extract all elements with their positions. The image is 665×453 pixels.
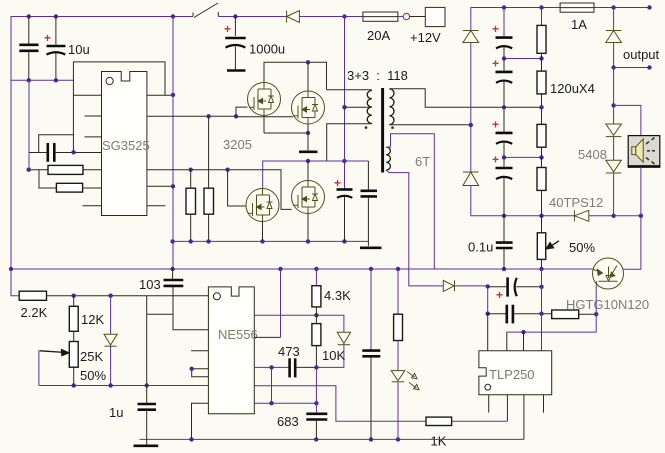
diode 40TPS12 points left	[574, 210, 588, 221]
resistor R-gB vertical	[204, 188, 214, 214]
capacitor 1000u electrolytic	[224, 17, 246, 70]
IC TLP250 body	[479, 351, 552, 395]
resistor 2.2K	[19, 291, 46, 300]
wire long vertical from switch node	[172, 17, 174, 269]
svg-text:10u: 10u	[68, 42, 90, 57]
ground mid	[299, 151, 318, 154]
node pin mid vertical	[171, 184, 175, 188]
node TLP pin6 top	[521, 330, 525, 334]
capacitor 120u #3 electrolytic	[492, 117, 513, 143]
node main rail x=398	[396, 267, 400, 271]
svg-text:1K: 1K	[431, 434, 447, 449]
svg-text:1A: 1A	[571, 17, 587, 32]
wire 40TPS12 to columns	[589, 215, 641, 217]
diode D-in (points left)	[287, 11, 300, 23]
capacitor 1u	[138, 404, 157, 445]
wire 1K right to TLP	[452, 420, 508, 422]
wire cap12 junction to resistors	[504, 58, 542, 60]
node top-left cap2 junction	[54, 14, 58, 18]
speaker sound icon	[628, 136, 660, 168]
node NE556 tied pins	[190, 367, 194, 371]
node resistor R-gA top	[206, 114, 210, 118]
wire SG3525 pin right top to vertical	[147, 94, 173, 96]
node bottom rail x=316.2	[314, 437, 318, 441]
wire link 314	[147, 313, 173, 315]
wire vcc branch down	[146, 296, 148, 404]
node wiper 1u	[145, 383, 149, 387]
wire speaker branch	[614, 105, 641, 135]
svg-text:3205: 3205	[223, 137, 252, 152]
wire +12V center feed vertical	[344, 17, 346, 190]
node mid rail x=308	[306, 239, 310, 243]
wire cap1-cap2 link	[503, 46, 505, 71]
wire SG3525 bottom-left stub	[82, 205, 101, 207]
ground below 1u	[134, 444, 159, 447]
svg-text:1000u: 1000u	[249, 42, 285, 57]
node cap1 bottom	[27, 78, 31, 82]
node cap2 bottom	[54, 78, 58, 82]
wire cap column top	[503, 8, 505, 37]
wire secondary top lead	[389, 89, 541, 108]
ground below mid rail	[360, 247, 382, 250]
svg-text:+: +	[492, 22, 499, 36]
wire gate drive A	[147, 115, 236, 117]
svg-text:+: +	[496, 288, 503, 302]
svg-text:0.1u: 0.1u	[468, 240, 493, 255]
wire fuse to terminal	[398, 16, 403, 18]
transistor Q4 (IRF3205 MOSFET)	[292, 181, 325, 214]
svg-text:6T: 6T	[415, 154, 430, 169]
node 473 left	[269, 365, 273, 369]
node M2 drain top	[306, 60, 310, 64]
node zener top	[108, 294, 112, 298]
wire M1-M2 source bottom loop	[263, 116, 265, 134]
node timing cap junction	[71, 150, 75, 154]
node pin-vcc vertical	[171, 93, 175, 97]
wire SG3525 top wrapper	[73, 62, 165, 152]
node bottom rail x=191.5	[189, 437, 193, 441]
transistor Q1 (IRF3205 MOSFET)	[248, 83, 281, 116]
svg-text:683: 683	[277, 414, 299, 429]
LED indicator down	[391, 371, 405, 382]
svg-text:5408: 5408	[578, 147, 607, 162]
LED arrows	[407, 372, 419, 390]
capacitor 683	[306, 414, 327, 440]
capacitor C-drv1 electrolytic series	[488, 277, 542, 302]
capacitor 0.1u	[496, 243, 513, 248]
wire main rail to IGBT	[11, 268, 593, 270]
capacitor 473	[290, 358, 317, 377]
wire NE556 pin7 to gnd	[192, 403, 209, 439]
wire cap4 to snubber bus	[503, 177, 505, 216]
node bottom rail x=398	[396, 437, 400, 441]
svg-text:NE556: NE556	[218, 327, 258, 342]
node R-gB top	[189, 168, 193, 172]
svg-text:20A: 20A	[367, 28, 390, 43]
wire R-gB leads	[208, 116, 210, 188]
svg-text:+: +	[224, 22, 231, 36]
wire left column to snubber bus	[471, 186, 575, 216]
svg-text:output: output	[623, 47, 660, 62]
node 473 right	[314, 365, 318, 369]
node mid rail x=172.6	[170, 239, 174, 243]
node speaker branch	[611, 103, 615, 107]
wire gate A jog to M1	[236, 107, 248, 116]
wire LED column top	[397, 269, 399, 314]
TLP250 pin1 circle	[485, 384, 491, 390]
node mid rail x=262.5	[260, 239, 264, 243]
wire 4.3K column	[315, 269, 317, 286]
node rail cap column	[502, 5, 506, 9]
node main rail x=371	[369, 267, 373, 271]
wire output column top	[613, 8, 615, 31]
wire M3-M4 drain wire A	[263, 161, 369, 189]
svg-text:+: +	[334, 176, 341, 190]
svg-text:2.2K: 2.2K	[21, 305, 48, 320]
resistor 10K	[312, 315, 321, 367]
wire gate res to emitter node	[579, 313, 597, 315]
capacitor 103	[164, 268, 209, 330]
svg-text:40TPS12: 40TPS12	[549, 195, 603, 210]
node main rail x=280.5	[278, 267, 282, 271]
wire 683 column	[315, 367, 317, 413]
node center tap junction	[342, 105, 346, 109]
wire res col down to TLP	[541, 269, 543, 351]
svg-text:25K: 25K	[80, 349, 103, 364]
svg-text:TLP250: TLP250	[489, 367, 535, 382]
wire gate B to M3	[228, 170, 246, 206]
wire cap34 junction to resistors	[504, 156, 542, 158]
svg-text:3+3 : 118: 3+3 : 118	[347, 68, 408, 83]
diode D6 rectifier up (left column lower)	[463, 172, 479, 186]
node gate A branch	[234, 114, 238, 118]
svg-text:120uX4: 120uX4	[550, 81, 595, 96]
diode D5 rectifier up (left column)	[463, 31, 479, 43]
wire speaker to collector	[623, 167, 641, 269]
wire NE556 mode stub	[254, 336, 280, 338]
wire SG pin right mid stub	[147, 185, 173, 187]
wire cap3-cap4 link	[503, 142, 505, 168]
wire 1K left to NE556	[254, 386, 426, 422]
resistor RT2	[56, 183, 82, 192]
wire NE556 discharge pin	[254, 402, 316, 404]
svg-text:103: 103	[139, 277, 161, 292]
node cap B left	[486, 312, 490, 316]
capacitor CT (timing) with bridge	[29, 135, 102, 162]
IC SG3525 body	[102, 72, 147, 216]
transistor Q3 (IRF3205 MOSFET)	[246, 189, 279, 222]
wire 6T bottom lead	[386, 170, 443, 286]
wire vertical cap A to cap B left	[487, 287, 489, 314]
wire res column to pot	[541, 216, 543, 233]
fuse 1A	[560, 3, 594, 12]
wire NE556 left pins tied	[192, 369, 209, 377]
wire 6T top lead	[386, 134, 434, 269]
wire switch to diode	[218, 16, 286, 18]
wire bottom ground rail	[140, 438, 524, 440]
svg-text:+12V: +12V	[410, 30, 441, 45]
wire caps bottom rail	[11, 79, 74, 81]
resistor 4.3K	[312, 286, 321, 307]
svg-text:4.3K: 4.3K	[324, 288, 351, 303]
node rail output column	[611, 5, 615, 9]
pot 25K arrow	[39, 350, 69, 386]
node wiper zener	[108, 383, 112, 387]
node output stub	[611, 65, 615, 69]
wire terminal to +12V	[410, 16, 426, 18]
wire RT1 to IC	[83, 169, 102, 171]
svg-text:50%: 50%	[80, 368, 106, 383]
diode 5408 #2 down	[606, 160, 622, 173]
svg-text:+: +	[492, 117, 499, 131]
wire wiper bus	[39, 385, 209, 387]
wire diode to fuse	[299, 16, 363, 18]
wire primary bottom lead	[327, 124, 372, 161]
wire output stub	[614, 67, 650, 69]
capacitor mid 104	[362, 351, 380, 440]
wire primary center tap	[345, 106, 372, 108]
wire LED to bottom rail	[397, 382, 399, 440]
capacitor 10u electrolytic	[44, 17, 66, 81]
terminal circle	[403, 13, 409, 19]
svg-text:+: +	[492, 153, 499, 167]
wire gate drive B right	[147, 170, 292, 210]
resistor gate drive	[552, 310, 579, 319]
node main rail x=316.4	[314, 267, 318, 271]
node secondary bottom tap	[469, 123, 473, 127]
node 12K top	[72, 294, 76, 298]
zener diode down	[104, 296, 117, 386]
wire gate A to M2	[236, 116, 293, 118]
transistor HGTG10N120 IGBT	[593, 258, 624, 289]
wire gnd bus B left	[29, 169, 48, 171]
wire NE556 pin to 4.3K bus	[254, 315, 344, 332]
wire mid rail	[173, 240, 369, 242]
wire LED link	[397, 341, 399, 371]
capacitor 120u #1 electrolytic	[492, 22, 513, 48]
node M2 source bottom	[306, 131, 310, 135]
svg-text:10K: 10K	[322, 348, 345, 363]
node gate B tee	[225, 168, 229, 172]
diode 5408 #1 down	[606, 124, 622, 137]
node wire A +12V junction	[342, 159, 346, 163]
node gnd bus left	[27, 168, 31, 172]
polarity dot secondary	[391, 126, 394, 129]
svg-text:+: +	[492, 56, 499, 70]
node cap A left	[486, 284, 490, 288]
node bottom rail x=371	[369, 437, 373, 441]
node wiper 12K	[72, 383, 76, 387]
wire NE556 pin threshold	[254, 366, 288, 368]
wire secondary bottom lead	[389, 124, 469, 126]
wire SG3525 left stub pin2	[85, 136, 102, 138]
wire emitter vertical	[507, 286, 596, 333]
node M4 drain top	[306, 159, 310, 163]
capacitor C-in (non-polar)	[19, 17, 38, 81]
node mid rail x=344.5	[342, 239, 346, 243]
resistor LED	[394, 314, 403, 340]
wire TLP bottom pin stubs	[488, 395, 490, 413]
node switch left terminal	[171, 14, 175, 18]
transformer T1 core	[381, 88, 384, 173]
wire diode to cap A	[455, 285, 488, 287]
transformer T1 secondary coil	[389, 89, 394, 125]
wire RT2 to IC	[83, 187, 102, 189]
polarity dot primary	[365, 126, 368, 129]
wire top right rail	[471, 8, 560, 31]
svg-text:50%: 50%	[569, 240, 595, 255]
svg-text:12K: 12K	[81, 312, 104, 327]
node main rail x=11	[9, 267, 13, 271]
potentiometer 50% right	[537, 233, 545, 260]
wire cap2 to mid	[503, 81, 505, 133]
wire M2 source to ground	[307, 124, 309, 150]
potentiometer 25K	[69, 342, 78, 386]
wire R2 jog	[39, 170, 56, 188]
node main rail x=504	[502, 267, 506, 271]
node secondary top to cap column	[502, 105, 506, 109]
wire TLP pin stubs top	[487, 314, 489, 351]
wire M3 source to rail	[262, 222, 264, 242]
wire NE556 left stub pin5	[191, 350, 208, 352]
node mid rail x=208.6	[206, 239, 210, 243]
node rail right end	[647, 5, 651, 9]
switch S1	[193, 3, 218, 18]
wire 473 link down	[271, 367, 273, 403]
node top-left cap1 junction	[27, 14, 31, 18]
resistor bleeder R2	[537, 71, 546, 94]
diode 6T rectifier points right	[443, 280, 454, 291]
node cap A right	[539, 285, 543, 289]
wire vcc bus to NE556	[47, 295, 209, 297]
wire M1-M2 drain top loop	[264, 62, 327, 90]
resistor R-gA vertical	[186, 188, 196, 214]
wire R-gA leads	[190, 170, 192, 189]
node rail res column	[539, 5, 543, 9]
power port +12V box	[425, 7, 445, 26]
ground below 1000u	[227, 69, 246, 72]
capacitor C-bus electrolytic	[334, 176, 353, 241]
wire resistor column	[541, 8, 543, 26]
wire M2 drain lead	[307, 62, 309, 91]
node emitter junction	[594, 312, 598, 316]
node 683 top	[314, 401, 318, 405]
wire 2.2K feed	[11, 268, 19, 296]
svg-text:473: 473	[278, 344, 300, 359]
diode D-out up	[606, 31, 622, 43]
wire top rail left	[11, 17, 193, 269]
wire 0.1u cap	[503, 216, 505, 242]
svg-text:SG3525: SG3525	[102, 138, 150, 153]
wire SG3525 pin13 left	[73, 94, 101, 96]
wire M4 drain lead	[307, 161, 309, 181]
node 1000u junction	[233, 14, 237, 18]
svg-text:1u: 1u	[109, 405, 123, 420]
wire diode bottom jog	[316, 345, 344, 368]
fuse 20A	[363, 12, 398, 21]
resistor 1K	[426, 417, 452, 425]
svg-text:+: +	[44, 31, 51, 45]
capacitor C-bus2	[361, 161, 378, 246]
node mid rail x=190.7	[189, 239, 193, 243]
wire primary top lead	[327, 89, 372, 91]
wire mid cap column	[370, 269, 372, 350]
resistor bleeder R3	[537, 124, 546, 147]
resistor bleeder R1	[537, 25, 546, 53]
node main rail x=172.6	[170, 267, 174, 271]
capacitor 120u #2 electrolytic	[492, 56, 513, 82]
wire SG bottom-right stub	[147, 205, 166, 207]
node snubber bus cap col	[502, 214, 506, 218]
wire SG3525 left stub pin	[85, 115, 102, 117]
node cap B right	[539, 312, 543, 316]
node main rail x=541.5	[539, 267, 543, 271]
capacitor 120u #4 electrolytic	[492, 153, 513, 180]
wire ground branch down from caps	[28, 80, 30, 169]
node +12V feed junction	[342, 14, 346, 18]
resistor RT1	[48, 165, 83, 174]
wire mode stub to rail	[280, 269, 282, 337]
wire left diode column	[470, 43, 472, 173]
transformer T1 primary coil	[367, 91, 372, 124]
node discharge link	[269, 401, 273, 405]
resistor bleeder R4	[537, 168, 546, 191]
diode fast down (beside 10K)	[337, 332, 350, 344]
node 4.3K bottom	[314, 313, 318, 317]
resistor 12K	[69, 296, 78, 342]
node snubber bus res col	[539, 214, 543, 218]
transformer 6T winding	[386, 147, 390, 170]
transistor Q2 (IRF3205 MOSFET)	[292, 91, 325, 124]
IC NE556 body	[208, 287, 254, 414]
pot arrow right	[546, 241, 559, 249]
wire M4 source to rail	[307, 214, 309, 242]
node secondary top res column	[539, 105, 543, 109]
capacitor C-drv2	[488, 305, 552, 324]
